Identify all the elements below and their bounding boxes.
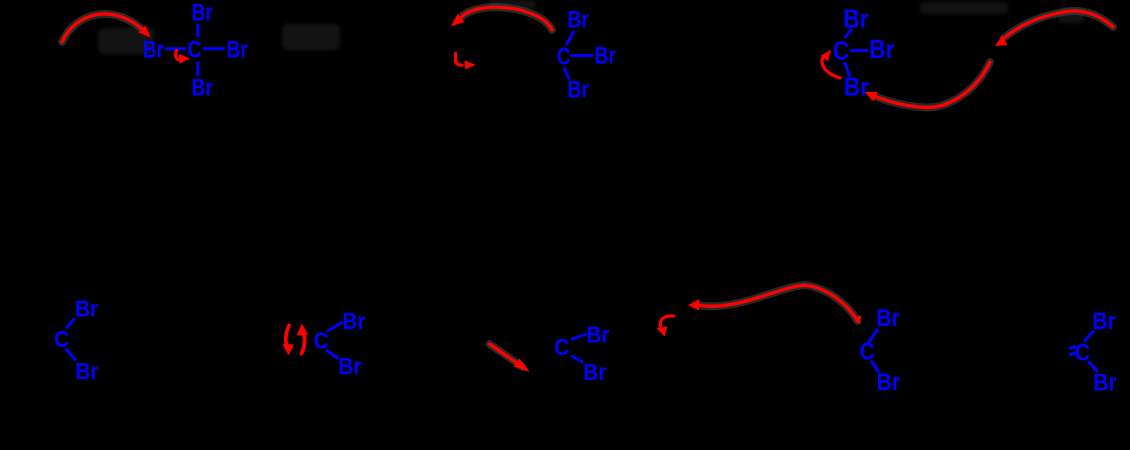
svg-text:C: C <box>557 42 571 70</box>
bond C-Br upper diagonal <box>571 334 587 340</box>
bond C-Br upper diagonal <box>1084 331 1094 342</box>
arrowhead A1 <box>139 26 151 38</box>
svg-text:Br: Br <box>876 305 900 332</box>
bond C-Brtop diagonal <box>566 31 574 46</box>
bond Brleft-C <box>166 47 187 50</box>
svg-text:Br: Br <box>338 353 361 379</box>
svg-text:Br: Br <box>586 321 609 347</box>
bond C-Brright <box>571 54 594 57</box>
bond C-Br upper diagonal <box>869 329 879 344</box>
bond C-Brright <box>850 49 868 52</box>
svg-text:C: C <box>188 35 202 63</box>
ghost PPh3 left of CBr4 <box>98 28 154 54</box>
casing arrow G long <box>697 285 858 321</box>
fragment CBr2 (bottom right of arc) <box>860 305 901 396</box>
arrow F (red, straight, down-right) <box>490 344 520 365</box>
svg-text:Br: Br <box>227 35 249 63</box>
svg-text:Br: Br <box>192 0 214 26</box>
arrow E-right (up) <box>302 332 305 354</box>
svg-text:Br: Br <box>143 35 165 63</box>
arrow pair E (red up/down arrows) <box>286 326 305 354</box>
arrow C2: long smile arc to Br (red) <box>876 62 991 108</box>
svg-text:Br: Br <box>843 5 869 34</box>
ghost right edge patch <box>1058 8 1084 23</box>
bond C-Brtop diagonal <box>845 29 852 38</box>
svg-text:C: C <box>554 334 569 360</box>
svg-text:Br: Br <box>75 358 98 384</box>
casing arc B1 <box>460 7 552 30</box>
arrow A1: PPh3 lone pair to Br (big red arc) <box>62 14 142 42</box>
svg-text:Br: Br <box>595 41 617 69</box>
arrow B1: CBr3 carbanion to P (big red arc, head left) <box>460 7 552 30</box>
bond C-Br lower diagonal <box>871 361 879 373</box>
arrow G hook (red, small, near alkoxide) <box>660 316 673 326</box>
bond C-Br lower diagonal <box>571 356 583 363</box>
casing arc C1 <box>1004 11 1113 38</box>
double bond stub lower <box>1069 353 1076 355</box>
fragment CBr2 (bottom, second) <box>314 308 366 379</box>
molecule CBr4 <box>143 0 249 101</box>
casing arc A1 <box>62 14 142 42</box>
bond C-Brtop <box>196 24 199 38</box>
svg-text:Br: Br <box>583 359 606 385</box>
ghost text above arc B <box>488 0 536 9</box>
svg-text:Br: Br <box>342 308 365 334</box>
svg-text:Br: Br <box>192 73 214 101</box>
arrow G long (red, head left at alkoxide O) <box>697 285 858 321</box>
bond C-Brbottom diagonal <box>845 62 851 77</box>
svg-text:C: C <box>833 37 849 66</box>
ghost Br- label top middle-left <box>282 24 340 50</box>
bond C-Br lower diagonal <box>326 350 339 359</box>
molecule CBr3 (phosphonium-bound, top right) <box>833 5 895 102</box>
bond C-Br lower diagonal <box>1089 361 1098 372</box>
casing arrow F <box>490 344 524 367</box>
fragment C=CBr2 (far right product) <box>1075 308 1117 396</box>
molecule CBr3 (attacking species, blue) <box>557 5 617 103</box>
svg-text:Br: Br <box>1093 369 1117 396</box>
fragment CBr2 (bottom left) <box>54 295 99 384</box>
bond C-Br upper diagonal <box>66 319 75 329</box>
svg-text:Br: Br <box>877 369 901 396</box>
bond C-Br lower diagonal <box>66 349 77 361</box>
arrow A2: C-Br bond to C (small red hook) <box>176 51 180 60</box>
arrow E-left (down) <box>286 326 289 348</box>
svg-text:Br: Br <box>869 35 895 64</box>
svg-text:Br: Br <box>568 5 590 33</box>
casing arc C2 <box>876 62 991 108</box>
bond C-Brbottom diagonal <box>564 68 569 80</box>
ghost text top right row <box>920 2 1008 14</box>
arrow B2: small red hook below <box>456 54 463 66</box>
svg-text:Br: Br <box>75 295 98 321</box>
bond C-Br upper diagonal <box>327 322 343 332</box>
fragment CBr2 (bottom center) <box>554 321 610 385</box>
bond C-Brbottom <box>196 62 199 77</box>
bond C-Brright <box>203 47 225 50</box>
arrow C3: C-Br bond hook (red, left of C) <box>822 59 840 79</box>
svg-text:Br: Br <box>568 75 590 103</box>
svg-text:Br: Br <box>844 73 870 102</box>
svg-text:Br: Br <box>1092 308 1116 335</box>
double bond stub upper <box>1069 347 1076 349</box>
arrow C1: from alcohol H to O (red arc from right edge) <box>1004 11 1113 38</box>
arrowhead B1 <box>451 14 465 27</box>
